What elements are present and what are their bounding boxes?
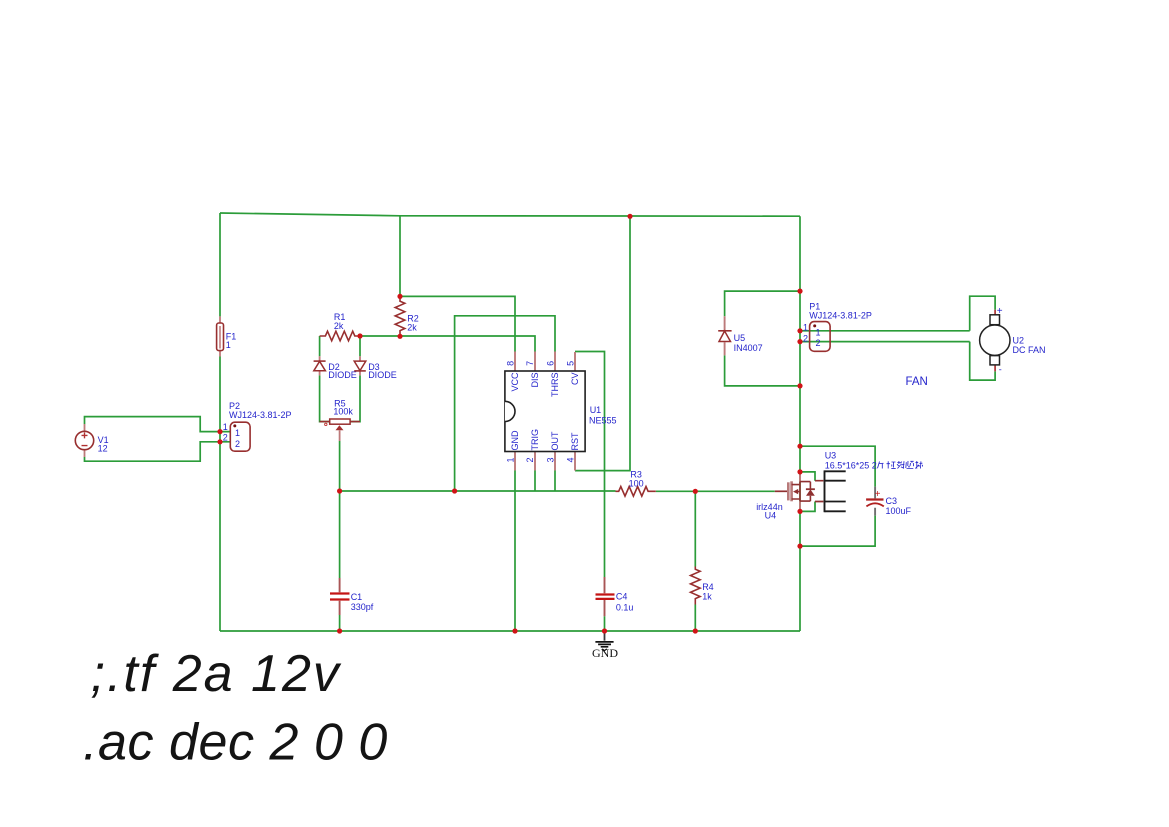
wire node R2top to VCC	[400, 296, 515, 351]
wire left trunk lower	[219, 357, 221, 632]
junction source	[797, 509, 802, 514]
wire P1 pin2 to fan	[800, 341, 970, 343]
svg-text:WJ124-3.81-2P: WJ124-3.81-2P	[809, 311, 872, 321]
svg-text:5: 5	[566, 361, 576, 366]
svg-text:2k: 2k	[407, 323, 417, 333]
diode D3	[354, 356, 397, 380]
wire left trunk upper	[219, 213, 221, 316]
connector P2	[223, 401, 292, 451]
svg-text:+: +	[875, 489, 881, 500]
svg-text:3: 3	[545, 457, 555, 462]
wire V1 plus to P2 pin1	[85, 417, 231, 432]
svg-text:100uF: 100uF	[886, 506, 912, 516]
junction R2 top	[397, 294, 402, 299]
svg-text:DC FAN: DC FAN	[1013, 345, 1046, 355]
capacitor C4	[596, 577, 634, 616]
capacitor C3	[866, 487, 911, 516]
junction GND pin bottom	[512, 628, 517, 633]
transistor U4 irlz44n	[756, 472, 815, 521]
svg-text:C4: C4	[616, 592, 628, 602]
wire fan bottom bracket	[970, 342, 995, 381]
svg-text:2: 2	[235, 439, 240, 449]
wire top rail	[220, 213, 800, 216]
svg-text:2: 2	[223, 432, 228, 442]
wire D3 top	[359, 336, 361, 356]
resistor R2	[395, 296, 419, 336]
wire right trunk	[799, 216, 801, 631]
svg-text:U2: U2	[1013, 335, 1025, 345]
junction wiper node	[337, 488, 342, 493]
svg-text:-: -	[999, 365, 1002, 375]
junction P1 pin1	[797, 328, 802, 333]
wire R4 branch lower	[694, 605, 696, 632]
junction C1 bottom	[337, 628, 342, 633]
svg-text:1: 1	[505, 457, 515, 462]
junction R1-D3	[357, 333, 362, 338]
ground symbol GND	[592, 631, 618, 660]
svg-text:6: 6	[545, 361, 555, 366]
wire C3 top branch	[800, 446, 875, 486]
junction C3 bottom	[797, 544, 802, 549]
voltage source V1	[75, 424, 108, 457]
wire GND pin down	[514, 471, 516, 632]
junction P2 pin2	[217, 439, 222, 444]
svg-text:7: 7	[525, 361, 535, 366]
svg-text:1: 1	[803, 323, 808, 333]
junction U5 bottom	[797, 383, 802, 388]
svg-text:DIS: DIS	[530, 373, 540, 388]
wire U5 top branch	[725, 291, 800, 316]
svg-text:+: +	[997, 306, 1003, 317]
svg-text:.ac dec 2 0 0: .ac dec 2 0 0	[83, 714, 388, 772]
wire node row right of R3	[656, 490, 696, 492]
svg-text:RST: RST	[570, 432, 580, 451]
junction R2 bottom	[397, 334, 402, 339]
junction P2 pin1	[217, 429, 222, 434]
wire OUT down	[554, 471, 556, 492]
svg-text:GND: GND	[592, 646, 618, 660]
svg-text:2: 2	[525, 457, 535, 462]
svg-text:OUT: OUT	[550, 431, 560, 451]
wire R1 left to D2	[319, 336, 321, 356]
wire CV to C4 branch	[575, 352, 605, 578]
diode U5	[718, 316, 762, 355]
wire R1 right to R2 bottom to DIS	[360, 336, 535, 352]
svg-text:100: 100	[629, 479, 644, 489]
junction C3 top	[797, 444, 802, 449]
wire C4 to bottom rail	[604, 616, 606, 631]
junction rail-RST	[627, 214, 632, 219]
svg-text:2: 2	[803, 333, 808, 343]
resistor R3	[616, 469, 656, 496]
svg-text:FAN: FAN	[906, 376, 928, 388]
svg-text:U4: U4	[765, 511, 777, 521]
wire U5 bottom branch	[725, 355, 800, 386]
svg-text:C1: C1	[351, 592, 363, 602]
capacitor C1	[330, 578, 374, 615]
resistor R1	[320, 312, 360, 341]
svg-text:GND: GND	[510, 430, 520, 451]
wire C3 bottom branch	[800, 516, 875, 547]
wire source to heatsink	[800, 502, 815, 512]
svg-text:;.tf 2a 12v: ;.tf 2a 12v	[91, 645, 342, 703]
svg-text:CV: CV	[570, 373, 580, 386]
heatsink U3	[815, 451, 923, 513]
svg-text:12: 12	[98, 444, 108, 454]
svg-text:1k: 1k	[702, 592, 712, 602]
svg-text:DIODE: DIODE	[368, 370, 397, 380]
wire THRS link	[455, 316, 555, 491]
wire R2 top branch from rail	[399, 216, 401, 297]
junction U5 top	[797, 289, 802, 294]
wire R5 wiper down	[339, 441, 341, 491]
IC U1 NE555	[505, 352, 617, 471]
svg-text:330pf: 330pf	[351, 602, 374, 612]
svg-text:C3: C3	[886, 496, 898, 506]
svg-text:NE555: NE555	[589, 415, 617, 425]
junction C4 bottom	[602, 628, 607, 633]
svg-text:2k: 2k	[334, 321, 344, 331]
svg-text:TRIG: TRIG	[530, 429, 540, 451]
wire bottom rail	[220, 630, 800, 632]
wire RST up to rail	[575, 216, 630, 470]
svg-text:IN4007: IN4007	[734, 343, 763, 353]
svg-text:1: 1	[226, 340, 231, 350]
svg-text:R4: R4	[702, 582, 714, 592]
wire C1 branch upper	[339, 491, 341, 578]
svg-text:1: 1	[235, 428, 240, 438]
svg-text:2: 2	[816, 338, 821, 348]
svg-text:1: 1	[816, 327, 821, 337]
wire fan top bracket	[970, 296, 995, 331]
svg-text:0.1u: 0.1u	[616, 602, 634, 612]
diode D2	[314, 356, 357, 380]
wire P1 pin1 to fan	[800, 330, 970, 332]
svg-text:4: 4	[566, 457, 576, 462]
svg-text:16.5*16*25 2: 16.5*16*25 2	[825, 460, 877, 470]
svg-text:U3: U3	[825, 451, 837, 461]
resistor R4	[691, 567, 714, 605]
svg-text:100k: 100k	[333, 406, 353, 416]
potentiometer R5	[320, 398, 360, 441]
wire R4 branch upper	[694, 491, 696, 566]
wire node row left of R3	[340, 490, 616, 492]
wire V1 minus to P2 pin2	[85, 442, 231, 461]
wire gate	[695, 490, 775, 492]
svg-text:DIODE: DIODE	[328, 370, 357, 380]
junction THRS node	[452, 488, 457, 493]
motor U2 DC FAN	[980, 306, 1046, 375]
junction R4 bottom	[693, 628, 698, 633]
svg-text:WJ124-3.81-2P: WJ124-3.81-2P	[229, 410, 292, 420]
svg-text:1: 1	[223, 422, 228, 432]
wire C1 branch lower	[339, 615, 341, 631]
wire D2 to R5 left	[320, 375, 330, 421]
junction R3-R4 node	[693, 489, 698, 494]
svg-text:U5: U5	[734, 333, 746, 343]
svg-text:VCC: VCC	[510, 372, 520, 392]
svg-text:THRS: THRS	[550, 373, 560, 398]
svg-text:U1: U1	[590, 405, 602, 415]
svg-text:8: 8	[505, 361, 515, 366]
wire TRIG down	[534, 471, 536, 492]
junction P1 pin2	[797, 339, 802, 344]
connector P1	[803, 301, 872, 351]
wire drain to heatsink	[800, 472, 815, 481]
fuse F1	[217, 316, 237, 356]
junction drain	[797, 469, 802, 474]
wire D3 to R5 right	[350, 375, 360, 421]
